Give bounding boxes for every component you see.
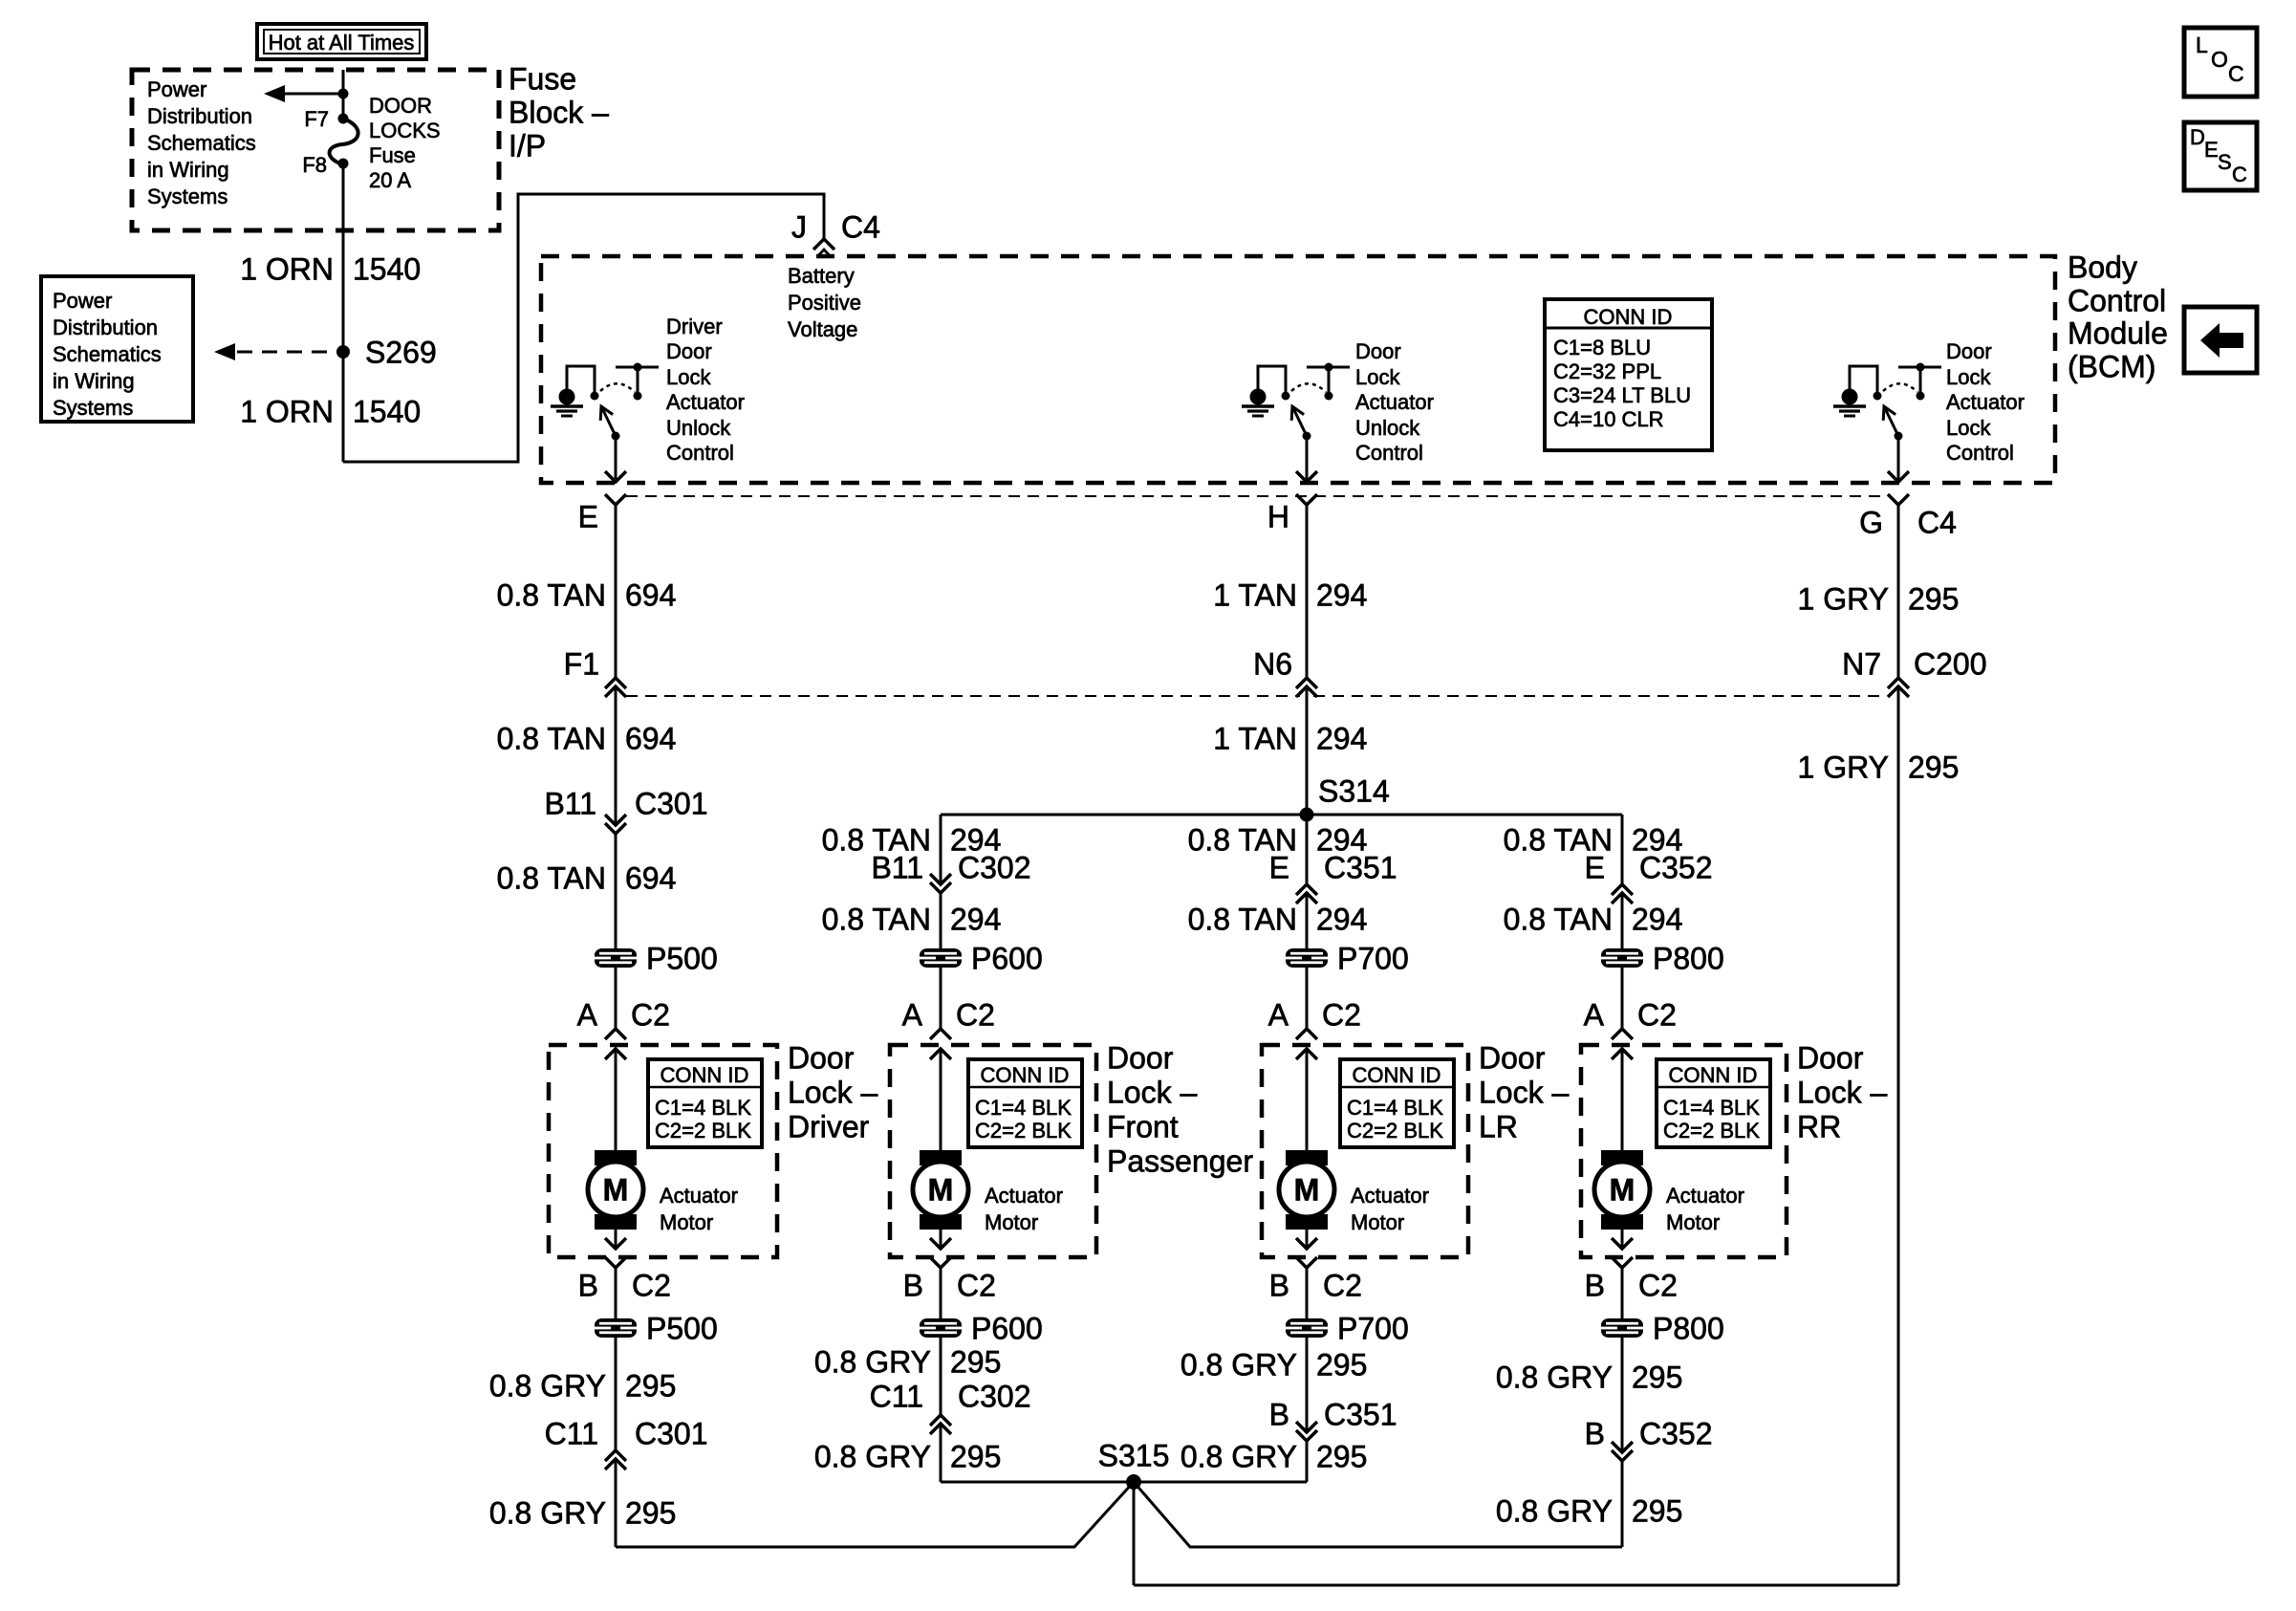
- svg-text:Power: Power: [53, 289, 112, 313]
- RR bottom wire 295: [1621, 1268, 1624, 1452]
- fuse block I/P box: [132, 70, 499, 230]
- svg-text:F8: F8: [302, 153, 327, 177]
- wire into box: [1621, 1049, 1624, 1151]
- svg-text:Fuse: Fuse: [369, 143, 416, 167]
- svg-text:C4: C4: [1917, 506, 1957, 540]
- svg-text:Schematics: Schematics: [53, 342, 162, 366]
- svg-text:CONN ID: CONN ID: [661, 1063, 749, 1087]
- svg-text:C1=8 BLU: C1=8 BLU: [1553, 336, 1651, 359]
- svg-text:Lock –: Lock –: [1107, 1076, 1197, 1110]
- svg-text:0.8 GRY: 0.8 GRY: [814, 1440, 931, 1474]
- svg-text:Lock: Lock: [666, 365, 711, 389]
- svg-text:1540: 1540: [353, 252, 421, 287]
- svg-text:B: B: [578, 1269, 598, 1303]
- splice S315 network: [941, 1481, 1307, 1484]
- driver door lock actuator unlock control switch: [559, 389, 575, 405]
- svg-text:S315: S315: [1098, 1439, 1170, 1473]
- svg-text:L: L: [2196, 33, 2208, 57]
- grommet P500: [595, 948, 637, 968]
- svg-text:C2=2 BLK: C2=2 BLK: [1347, 1119, 1443, 1143]
- svg-text:295: 295: [1316, 1440, 1367, 1474]
- svg-text:C2: C2: [1322, 998, 1361, 1033]
- svg-text:E: E: [1269, 851, 1289, 885]
- svg-text:295: 295: [950, 1440, 1001, 1474]
- svg-text:CONN ID: CONN ID: [1584, 305, 1673, 329]
- svg-text:H: H: [1267, 500, 1289, 534]
- svg-text:Lock –: Lock –: [788, 1076, 877, 1110]
- grommet P700: [1286, 948, 1328, 968]
- svg-text:Door: Door: [1107, 1041, 1174, 1076]
- svg-text:P700: P700: [1337, 942, 1409, 976]
- LOC icon: [2184, 28, 2257, 97]
- svg-text:Lock: Lock: [1946, 416, 1991, 440]
- svg-text:295: 295: [1632, 1361, 1682, 1395]
- svg-text:0.8 TAN: 0.8 TAN: [497, 861, 606, 896]
- door lock box 2: [890, 1045, 1096, 1257]
- svg-text:294: 294: [1316, 722, 1367, 756]
- LR bottom wire 295: [1306, 1268, 1309, 1432]
- wire 694 TAN segment 1: [615, 505, 617, 678]
- driver bottom wire 295: [615, 1268, 617, 1450]
- svg-text:C2: C2: [1637, 998, 1677, 1033]
- wire out of box: [615, 1230, 617, 1249]
- svg-text:C2=2 BLK: C2=2 BLK: [975, 1119, 1072, 1143]
- svg-text:F1: F1: [564, 647, 599, 682]
- svg-text:P800: P800: [1653, 1312, 1724, 1346]
- svg-text:Hot at All Times: Hot at All Times: [269, 31, 415, 54]
- connector C2 pin B: [930, 1257, 951, 1268]
- svg-text:(BCM): (BCM): [2068, 350, 2155, 384]
- svg-text:C200: C200: [1914, 647, 1987, 682]
- svg-text:295: 295: [625, 1496, 676, 1531]
- svg-text:1 TAN: 1 TAN: [1213, 722, 1297, 756]
- svg-text:B: B: [1585, 1269, 1605, 1303]
- svg-text:Door: Door: [788, 1041, 855, 1076]
- dashed arrow to power distribution box: [229, 351, 327, 354]
- svg-text:Door: Door: [1797, 1041, 1864, 1076]
- fuse F7/F8 DOOR LOCKS 20A: [338, 114, 349, 124]
- svg-text:E: E: [2204, 138, 2219, 162]
- svg-text:C4: C4: [841, 210, 880, 245]
- wire 1540 ORN: [342, 163, 345, 462]
- svg-text:B11: B11: [544, 787, 596, 821]
- svg-text:M: M: [1610, 1173, 1635, 1208]
- svg-text:C301: C301: [635, 1417, 708, 1451]
- svg-text:Door: Door: [1355, 339, 1401, 363]
- svg-text:D: D: [2190, 125, 2205, 149]
- svg-text:C2: C2: [632, 1269, 671, 1303]
- svg-text:Voltage: Voltage: [788, 317, 857, 341]
- svg-text:C2: C2: [1323, 1269, 1362, 1303]
- wire 294 TAN segment 1: [1306, 505, 1309, 678]
- svg-text:S269: S269: [365, 336, 437, 370]
- svg-text:A: A: [1584, 998, 1605, 1033]
- svg-text:694: 694: [625, 722, 676, 756]
- svg-text:Actuator: Actuator: [1666, 1184, 1744, 1208]
- svg-text:C1=4 BLK: C1=4 BLK: [1347, 1096, 1443, 1120]
- svg-text:Unlock: Unlock: [1355, 416, 1420, 440]
- svg-text:C2=2 BLK: C2=2 BLK: [1663, 1119, 1760, 1143]
- svg-text:0.8 GRY: 0.8 GRY: [1496, 1494, 1613, 1529]
- svg-text:Actuator: Actuator: [666, 390, 745, 414]
- svg-text:Power: Power: [147, 77, 206, 101]
- svg-text:Systems: Systems: [53, 396, 133, 420]
- actuator motor: [1601, 1150, 1643, 1165]
- svg-text:Front: Front: [1107, 1110, 1179, 1144]
- svg-text:294: 294: [1316, 903, 1367, 937]
- svg-text:0.8 TAN: 0.8 TAN: [497, 722, 606, 756]
- svg-text:Door: Door: [1479, 1041, 1546, 1076]
- conn id table: [1657, 1059, 1770, 1147]
- svg-text:Actuator: Actuator: [1351, 1184, 1429, 1208]
- svg-text:J: J: [791, 210, 807, 245]
- svg-text:0.8 TAN: 0.8 TAN: [1188, 903, 1297, 937]
- front passenger bottom wire 295: [940, 1268, 942, 1415]
- svg-text:295: 295: [1908, 582, 1959, 617]
- svg-text:C301: C301: [635, 787, 708, 821]
- svg-text:C2: C2: [1638, 1269, 1678, 1303]
- power distribution reference box: [41, 276, 193, 422]
- DESC icon: [2184, 122, 2257, 190]
- svg-text:N6: N6: [1253, 647, 1292, 682]
- svg-text:C2: C2: [956, 998, 995, 1033]
- svg-text:C: C: [2228, 61, 2244, 86]
- svg-text:Actuator: Actuator: [985, 1184, 1063, 1208]
- door lock actuator unlock control switch: [1250, 389, 1267, 405]
- connector C2 pin B: [1296, 1257, 1317, 1268]
- svg-text:B: B: [903, 1269, 923, 1303]
- svg-text:in Wiring: in Wiring: [53, 369, 135, 393]
- svg-text:Actuator: Actuator: [1946, 390, 2025, 414]
- svg-text:G: G: [1859, 506, 1883, 540]
- wire to BCM pin J: [343, 194, 824, 462]
- svg-text:0.8 GRY: 0.8 GRY: [1496, 1361, 1613, 1395]
- svg-text:C11: C11: [545, 1417, 598, 1451]
- svg-text:295: 295: [1316, 1348, 1367, 1382]
- svg-text:Actuator: Actuator: [660, 1184, 738, 1208]
- door lock box 4: [1581, 1045, 1787, 1257]
- svg-text:C2: C2: [631, 998, 670, 1033]
- grommet P800: [1601, 948, 1643, 968]
- svg-text:Control: Control: [2068, 284, 2166, 318]
- wire 694 segment 3: [615, 834, 617, 1029]
- conn id table: [648, 1059, 762, 1147]
- svg-text:0.8 TAN: 0.8 TAN: [822, 903, 931, 937]
- wire 294 below S314: [1306, 815, 1309, 884]
- connector C4 boundary line: [626, 495, 1888, 497]
- wire 694 segment 2: [615, 686, 617, 825]
- svg-text:B11: B11: [871, 851, 923, 885]
- svg-text:C351: C351: [1324, 851, 1397, 885]
- svg-text:295: 295: [950, 1345, 1001, 1380]
- svg-text:C2=2 BLK: C2=2 BLK: [655, 1119, 751, 1143]
- svg-text:295: 295: [625, 1369, 676, 1404]
- svg-text:Passenger: Passenger: [1107, 1144, 1253, 1179]
- svg-text:CONN ID: CONN ID: [1669, 1063, 1758, 1087]
- svg-text:Driver: Driver: [666, 315, 723, 338]
- svg-text:E: E: [578, 500, 598, 534]
- svg-text:LR: LR: [1479, 1110, 1518, 1144]
- svg-text:CONN ID: CONN ID: [1353, 1063, 1441, 1087]
- svg-text:RR: RR: [1797, 1110, 1841, 1144]
- svg-text:C302: C302: [958, 851, 1031, 885]
- svg-text:Battery: Battery: [788, 264, 855, 288]
- svg-text:0.8 TAN: 0.8 TAN: [1504, 903, 1613, 937]
- pin H fork: [1296, 494, 1317, 505]
- svg-text:A: A: [1268, 998, 1289, 1033]
- svg-text:M: M: [928, 1173, 954, 1208]
- svg-text:Fuse: Fuse: [509, 62, 576, 97]
- svg-text:Door: Door: [1946, 339, 1992, 363]
- svg-text:LOCKS: LOCKS: [369, 119, 441, 142]
- svg-text:S314: S314: [1318, 774, 1390, 809]
- svg-text:in Wiring: in Wiring: [147, 158, 229, 182]
- svg-text:294: 294: [1632, 903, 1682, 937]
- svg-text:DOOR: DOOR: [369, 94, 432, 118]
- svg-text:C2: C2: [957, 1269, 996, 1303]
- wire out of box: [1306, 1230, 1309, 1249]
- svg-text:M: M: [603, 1173, 629, 1208]
- svg-text:C351: C351: [1324, 1398, 1397, 1432]
- wire from hot to fuse: [342, 70, 345, 119]
- svg-text:C1=4 BLK: C1=4 BLK: [975, 1096, 1072, 1120]
- connector C2 pin B: [605, 1257, 626, 1268]
- svg-text:C352: C352: [1639, 1417, 1713, 1451]
- svg-text:C1=4 BLK: C1=4 BLK: [1663, 1096, 1760, 1120]
- svg-text:Control: Control: [1946, 441, 2014, 465]
- svg-text:0.8 GRY: 0.8 GRY: [489, 1369, 606, 1404]
- wire 294 segment 2: [1306, 686, 1309, 815]
- svg-text:Positive: Positive: [788, 291, 861, 315]
- svg-text:0.8 GRY: 0.8 GRY: [814, 1345, 931, 1380]
- svg-text:Control: Control: [1355, 441, 1423, 465]
- svg-text:Lock: Lock: [1355, 365, 1400, 389]
- actuator motor: [595, 1150, 637, 1165]
- svg-text:Lock –: Lock –: [1479, 1076, 1569, 1110]
- Hot at All Times label box: [257, 24, 426, 59]
- svg-text:694: 694: [625, 861, 676, 896]
- svg-text:F7: F7: [304, 107, 329, 131]
- wire 294 branch to C352: [1621, 815, 1624, 884]
- svg-text:C11: C11: [870, 1380, 923, 1414]
- svg-text:B: B: [1269, 1398, 1289, 1432]
- svg-text:0.8 GRY: 0.8 GRY: [1180, 1348, 1297, 1382]
- wire out of box: [940, 1230, 942, 1249]
- svg-text:Schematics: Schematics: [147, 131, 256, 155]
- door lock box 3: [1262, 1045, 1468, 1257]
- svg-text:N7: N7: [1842, 647, 1881, 682]
- svg-text:1 TAN: 1 TAN: [1213, 578, 1297, 613]
- connector C200 boundary line: [626, 695, 1300, 697]
- svg-text:Distribution: Distribution: [53, 316, 158, 339]
- svg-text:Distribution: Distribution: [147, 104, 252, 128]
- wire 294 branch to C302: [940, 815, 942, 884]
- svg-text:0.8 TAN: 0.8 TAN: [497, 578, 606, 613]
- svg-text:Block –: Block –: [509, 96, 609, 130]
- wire into box: [615, 1049, 617, 1151]
- svg-text:Systems: Systems: [147, 185, 227, 208]
- svg-text:Control: Control: [666, 441, 734, 465]
- connector C2 pin B: [1612, 1257, 1633, 1268]
- BCM CONN ID table: [1545, 299, 1712, 450]
- svg-text:1 ORN: 1 ORN: [240, 395, 334, 429]
- pin G fork: [1888, 494, 1909, 505]
- svg-text:B: B: [1269, 1269, 1289, 1303]
- svg-text:1540: 1540: [353, 395, 421, 429]
- svg-text:20 A: 20 A: [369, 168, 411, 192]
- svg-text:Motor: Motor: [1351, 1210, 1404, 1234]
- svg-text:O: O: [2211, 47, 2228, 72]
- wire 295 GRY segment 1: [1897, 505, 1900, 678]
- wire 295 long segment: [1897, 686, 1900, 1585]
- svg-text:0.8 GRY: 0.8 GRY: [1180, 1440, 1297, 1474]
- svg-text:Unlock: Unlock: [666, 416, 731, 440]
- svg-text:A: A: [902, 998, 923, 1033]
- actuator motor: [1286, 1150, 1328, 1165]
- svg-text:Door: Door: [666, 339, 712, 363]
- svg-text:P500: P500: [646, 1312, 718, 1346]
- door lock box 1: [549, 1045, 777, 1257]
- svg-text:1 GRY: 1 GRY: [1798, 751, 1889, 785]
- svg-text:C3=24 LT BLU: C3=24 LT BLU: [1553, 383, 1691, 407]
- svg-text:295: 295: [1908, 751, 1959, 785]
- back arrow icon: [2184, 307, 2257, 373]
- svg-text:P700: P700: [1337, 1312, 1409, 1346]
- svg-text:C302: C302: [958, 1380, 1031, 1414]
- svg-text:Module: Module: [2068, 316, 2168, 351]
- svg-text:P600: P600: [971, 1312, 1043, 1346]
- svg-text:S: S: [2218, 150, 2232, 174]
- pin E fork: [605, 494, 626, 505]
- wire out of box: [1621, 1230, 1624, 1249]
- connector J fork: [813, 239, 834, 250]
- svg-text:P600: P600: [971, 942, 1043, 976]
- svg-text:M: M: [1294, 1173, 1320, 1208]
- actuator motor: [920, 1150, 962, 1165]
- svg-text:1 GRY: 1 GRY: [1798, 582, 1889, 617]
- svg-text:C4=10 CLR: C4=10 CLR: [1553, 407, 1664, 431]
- conn id table: [968, 1059, 1082, 1147]
- svg-text:294: 294: [1316, 578, 1367, 613]
- svg-text:CONN ID: CONN ID: [981, 1063, 1070, 1087]
- svg-text:694: 694: [625, 578, 676, 613]
- wire into box: [940, 1049, 942, 1151]
- svg-text:E: E: [1585, 851, 1605, 885]
- svg-text:C352: C352: [1639, 851, 1713, 885]
- svg-text:Driver: Driver: [788, 1110, 870, 1144]
- svg-text:A: A: [577, 998, 598, 1033]
- wire to S315: [616, 1482, 1134, 1547]
- svg-text:C2=32 PPL: C2=32 PPL: [1553, 359, 1661, 383]
- svg-text:Lock: Lock: [1946, 365, 1991, 389]
- svg-text:C1=4 BLK: C1=4 BLK: [655, 1096, 751, 1120]
- svg-text:Motor: Motor: [1666, 1210, 1720, 1234]
- svg-text:P800: P800: [1653, 942, 1724, 976]
- svg-text:0.8 GRY: 0.8 GRY: [489, 1496, 606, 1531]
- Body Control Module box: [541, 256, 2055, 483]
- svg-text:Lock –: Lock –: [1797, 1076, 1887, 1110]
- svg-text:295: 295: [1632, 1494, 1682, 1529]
- door lock actuator lock control switch: [1842, 389, 1858, 405]
- wire into box: [1306, 1049, 1309, 1151]
- svg-text:Motor: Motor: [985, 1210, 1038, 1234]
- svg-text:294: 294: [950, 903, 1001, 937]
- arrow to power distribution (left): [279, 93, 343, 96]
- splice S269: [336, 345, 350, 359]
- svg-text:Actuator: Actuator: [1355, 390, 1434, 414]
- svg-text:P500: P500: [646, 942, 718, 976]
- svg-text:C: C: [2232, 163, 2247, 186]
- svg-text:1 ORN: 1 ORN: [240, 252, 334, 287]
- svg-text:B: B: [1585, 1417, 1605, 1451]
- conn id table: [1340, 1059, 1454, 1147]
- grommet P600: [920, 948, 962, 968]
- svg-text:I/P: I/P: [509, 129, 546, 163]
- svg-text:Body: Body: [2068, 250, 2137, 285]
- svg-text:Motor: Motor: [660, 1210, 713, 1234]
